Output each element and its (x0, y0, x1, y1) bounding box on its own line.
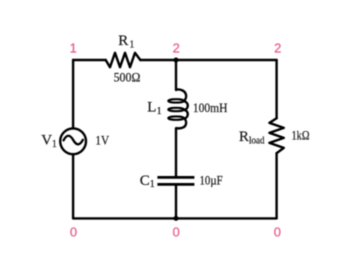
junction dot at node 0 (bottom middle) (174, 216, 179, 221)
inductor L1 bump 2 (184, 110, 187, 119)
svg-text:1: 1 (150, 179, 155, 190)
wire top-middle: R1 to node 2 to top-right corner (140, 59, 276, 61)
svg-text:1kΩ: 1kΩ (292, 128, 310, 143)
svg-text:0: 0 (172, 224, 179, 239)
svg-text:C: C (140, 173, 150, 189)
sine wave inside V1 (64, 136, 83, 145)
inductor L1 loop 1 (168, 99, 184, 102)
wire middle: C1 bottom plate down to node 0 (175, 185, 177, 218)
svg-text:2: 2 (274, 40, 281, 55)
svg-text:2: 2 (173, 41, 180, 56)
inductor L1 loop 3 (168, 116, 184, 119)
svg-text:0: 0 (70, 224, 77, 239)
svg-text:10µF: 10µF (200, 173, 223, 188)
inductor L1 entry curve (176, 89, 186, 100)
svg-text:R: R (239, 129, 249, 145)
capacitor C1 top plate (157, 176, 194, 179)
wire left: node 1 down to V1 top (72, 60, 74, 128)
svg-text:1: 1 (157, 106, 162, 117)
svg-text:100mH: 100mH (193, 100, 228, 115)
svg-text:500Ω: 500Ω (114, 70, 141, 85)
wire top-left: node 1 to R1 (73, 59, 106, 61)
inductor L1 loop 2 (168, 108, 184, 111)
svg-text:0: 0 (274, 224, 281, 239)
svg-text:load: load (249, 136, 265, 147)
resistor R1 (106, 53, 141, 67)
wire bottom: node 0 row (73, 217, 277, 219)
voltage source V1 (AC) (60, 128, 86, 154)
svg-text:1: 1 (70, 40, 77, 55)
wire right: Rload down to node 0 (275, 153, 277, 218)
svg-text:R: R (118, 33, 128, 49)
svg-text:1: 1 (129, 39, 134, 50)
wire middle: L1 to C1 top plate (175, 128, 177, 176)
svg-text:1: 1 (52, 139, 57, 150)
wire middle: node 2 down to L1 (175, 60, 177, 90)
wire left: V1 bottom down to node 0 (72, 154, 74, 218)
inductor L1 bump 1 (184, 101, 187, 110)
svg-text:V: V (41, 133, 52, 149)
wire right: node 2 down to Rload (275, 60, 277, 118)
inductor L1 exit curve (176, 119, 186, 129)
capacitor C1 bottom plate (157, 183, 194, 186)
junction dot at node 2 (top middle) (174, 58, 179, 63)
resistor Rload (269, 118, 283, 153)
svg-text:L: L (147, 99, 156, 115)
svg-text:1V: 1V (95, 133, 109, 148)
